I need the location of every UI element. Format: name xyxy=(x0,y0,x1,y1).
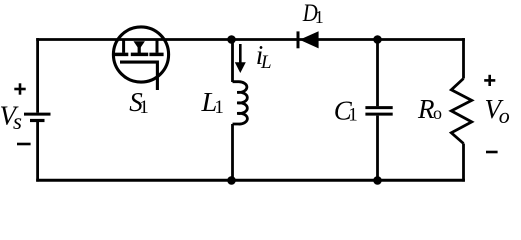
voltage source Vs (battery) xyxy=(24,114,51,120)
minus sign of Vs xyxy=(17,143,31,146)
svg-text:o: o xyxy=(433,103,442,123)
svg-text:1: 1 xyxy=(214,97,224,118)
node L1 top junction xyxy=(227,35,236,44)
label Vo xyxy=(485,94,510,128)
svg-text:L: L xyxy=(260,52,272,73)
wire C1 top lead xyxy=(376,40,379,107)
svg-text:1: 1 xyxy=(348,105,358,126)
svg-text:o: o xyxy=(499,103,510,128)
label L1 xyxy=(200,87,223,118)
diode D1 xyxy=(298,31,319,48)
plus sign of Vs xyxy=(14,83,25,94)
resistor Ro xyxy=(451,79,471,144)
wire top rail xyxy=(36,38,465,41)
label Vs xyxy=(0,101,22,134)
node C1 top junction xyxy=(373,35,382,44)
svg-text:1: 1 xyxy=(315,7,324,27)
plus sign of Vo xyxy=(484,75,495,86)
MOSFET S1 xyxy=(113,27,168,90)
wire right vertical (top) xyxy=(462,38,465,78)
minus sign of Vo xyxy=(486,151,498,154)
svg-text:1: 1 xyxy=(139,97,149,118)
wire bottom rail xyxy=(36,179,465,182)
label Ro xyxy=(417,94,442,124)
label D1 xyxy=(302,0,324,27)
node L1 bottom junction xyxy=(227,176,236,185)
label S1 xyxy=(129,87,149,118)
wire C1 bottom lead xyxy=(376,116,379,181)
label C1 xyxy=(334,95,358,125)
svg-text:s: s xyxy=(13,109,22,134)
wire L1 bottom lead xyxy=(231,124,234,180)
wire right vertical (bottom) xyxy=(462,144,465,182)
node C1 bottom junction xyxy=(373,176,382,185)
label iL xyxy=(256,40,272,73)
wire left vertical (top) xyxy=(36,38,39,113)
current arrow iL xyxy=(235,44,246,73)
inductor L1 xyxy=(233,82,248,124)
wire L1 top lead xyxy=(231,40,234,83)
wire left vertical (bottom) xyxy=(36,122,39,182)
capacitor C1 xyxy=(365,108,392,115)
